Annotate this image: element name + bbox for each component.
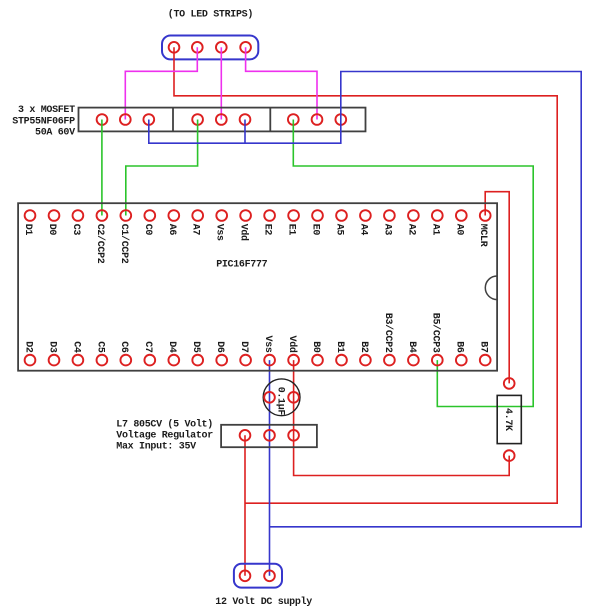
IC U1 bottom pin C6: [120, 355, 131, 366]
svg-text:Vss: Vss: [214, 224, 225, 241]
IC U1 top pin MCLR: [480, 210, 491, 221]
IC U1 bottom pin D2: [25, 355, 36, 366]
capacitor C1 pin 2: [288, 392, 299, 403]
IC U1 top pin A4: [360, 210, 371, 221]
IC U1 top pin C0: [144, 210, 155, 221]
svg-text:4.7K: 4.7K: [502, 408, 513, 431]
svg-text:D6: D6: [214, 341, 225, 353]
svg-text:D1: D1: [22, 224, 33, 236]
MOSFET Q3 pin 3: [335, 114, 346, 125]
svg-text:Vss: Vss: [262, 336, 273, 353]
IC U1 bottom pin D6: [216, 355, 227, 366]
IC U1 bottom pin B2: [360, 355, 371, 366]
svg-text:Vdd: Vdd: [286, 336, 298, 353]
IC U1 top pin Vss: [216, 210, 227, 221]
MOSFET Q3 pin 1: [288, 114, 299, 125]
svg-text:A5: A5: [334, 224, 345, 236]
svg-text:STP55NF06FP: STP55NF06FP: [12, 116, 75, 127]
svg-text:A6: A6: [166, 224, 177, 236]
IC U1 top pin C2/CCP2: [97, 210, 108, 221]
IC U1 bottom pin Vdd: [288, 355, 299, 366]
IC U1 top pin A5: [336, 210, 347, 221]
svg-text:C5: C5: [94, 341, 105, 353]
svg-text:B4: B4: [406, 341, 417, 353]
svg-text:(TO LED STRIPS): (TO LED STRIPS): [168, 9, 253, 21]
MOSFET Q2 pin 2: [216, 114, 227, 125]
IC U1 bottom pin D4: [168, 355, 179, 366]
svg-text:D2: D2: [22, 341, 33, 353]
regulator U2 pin 1: [240, 430, 251, 441]
voltage regulator U2 body: [221, 425, 317, 447]
IC U1 bottom pin C5: [97, 355, 108, 366]
resistor R1 top pin: [504, 378, 515, 389]
connector J2 pin 1: [240, 570, 251, 581]
wire magenta: J1 pin3 to MOSFET Q2 gate: [220, 47, 222, 119]
wire green: Q3 drain to PIC B5/CCP3: [293, 120, 533, 407]
svg-text:B2: B2: [358, 341, 369, 353]
connector J1 pin 3: [216, 42, 227, 53]
svg-text:MCLR: MCLR: [477, 224, 488, 247]
IC U1 top pin E1: [288, 210, 299, 221]
wire red +5V: PIC Vdd down through capacitor to regulator output, to resistor bottom: [294, 360, 510, 475]
connector J1 to LED strips: [162, 36, 258, 60]
MOSFET Q1 pin 2: [120, 114, 131, 125]
svg-text:B5/CCP3: B5/CCP3: [430, 313, 442, 353]
IC U1 top pin E0: [312, 210, 323, 221]
svg-text:C2/CCP2: C2/CCP2: [94, 224, 106, 264]
svg-text:Vdd: Vdd: [238, 224, 250, 241]
svg-text:A7: A7: [190, 224, 201, 236]
IC U1 bottom pin B4: [408, 355, 419, 366]
regulator U2 pin 2: [264, 430, 275, 441]
svg-text:C0: C0: [142, 224, 153, 236]
resistor R1 bottom pin: [504, 450, 515, 461]
svg-text:E0: E0: [310, 224, 321, 236]
MOSFET Q1 pin 3: [143, 114, 154, 125]
svg-text:C7: C7: [142, 341, 153, 353]
wire +12V red: J1 pin1 down, right, down right side, left to regulator input column: [174, 47, 557, 503]
IC U1 PIC16F777 body: [18, 203, 497, 371]
IC U1 bottom pin Vss: [264, 355, 275, 366]
wire blue ground: Q2 source stub: [244, 120, 246, 144]
svg-text:B3/CCP2: B3/CCP2: [382, 313, 394, 353]
IC U1 bottom pin D3: [49, 355, 60, 366]
svg-text:12 Volt DC supply: 12 Volt DC supply: [215, 596, 312, 608]
IC U1 top pin D0: [49, 210, 60, 221]
svg-text:B1: B1: [334, 341, 345, 353]
svg-text:C4: C4: [70, 341, 81, 353]
MOSFET Q2 pin 3: [240, 114, 251, 125]
svg-text:A1: A1: [429, 224, 440, 236]
svg-text:Voltage Regulator: Voltage Regulator: [116, 430, 213, 442]
IC U1 bottom pin C4: [73, 355, 84, 366]
svg-text:B7: B7: [478, 341, 489, 353]
IC U1 bottom pin B6: [456, 355, 467, 366]
IC U1 bottom pin D7: [240, 355, 251, 366]
svg-text:D4: D4: [166, 341, 177, 353]
MOSFET Q3 pin 2: [312, 114, 323, 125]
IC U1 bottom pin B5/CCP3: [432, 355, 443, 366]
MOSFET Q1 pin 1: [97, 114, 108, 125]
svg-text:C1/CCP2: C1/CCP2: [118, 224, 130, 264]
wire +12V red: supply pin1 up through junction to regulator pin1: [244, 435, 246, 576]
wire blue ground: PIC Vss down through capacitor and regulator to supply pin2: [269, 360, 271, 576]
IC U1 top pin D1: [25, 210, 36, 221]
IC U1 top pin A3: [384, 210, 395, 221]
wire red MCLR: PIC MCLR up, right, down to resistor top: [485, 192, 509, 384]
IC U1 top pin A1: [432, 210, 443, 221]
svg-text:E2: E2: [262, 224, 273, 236]
capacitor C1 pin 1: [264, 392, 275, 403]
IC U1 index notch: [485, 276, 497, 300]
wire blue ground: Q1 source along bottom, up over Q3, right edge down to supply: [149, 72, 581, 527]
connector J1 pin 2: [192, 42, 203, 53]
svg-text:D7: D7: [238, 341, 249, 353]
capacitor C1 0.1uF: [263, 379, 300, 416]
svg-text:A2: A2: [405, 224, 416, 236]
svg-text:D3: D3: [46, 341, 57, 353]
svg-text:0.1µF: 0.1µF: [274, 387, 285, 416]
svg-text:50A 60V: 50A 60V: [35, 128, 75, 139]
IC U1 top pin A0: [456, 210, 467, 221]
svg-text:L7 805CV (5 Volt): L7 805CV (5 Volt): [116, 419, 213, 431]
svg-text:B6: B6: [454, 341, 465, 353]
wire green: Q2 drain to PIC C1/CCP2: [126, 120, 198, 216]
IC U1 bottom pin B3/CCP2: [384, 355, 395, 366]
connector J1 pin 1: [169, 42, 180, 53]
connector J2 pin 2: [264, 570, 275, 581]
IC U1 top pin E2: [264, 210, 275, 221]
wire magenta: J1 pin2 to MOSFET Q1 gate: [125, 47, 197, 119]
svg-text:A4: A4: [357, 224, 368, 236]
svg-text:Max Input: 35V: Max Input: 35V: [116, 442, 196, 453]
svg-text:B0: B0: [310, 341, 321, 353]
svg-text:PIC16F777: PIC16F777: [216, 259, 267, 270]
IC U1 bottom pin B0: [312, 355, 323, 366]
connector J1 pin 4: [240, 42, 251, 53]
regulator U2 pin 3: [288, 430, 299, 441]
IC U1 top pin A6: [168, 210, 179, 221]
svg-text:A3: A3: [381, 224, 392, 236]
IC U1 bottom pin D5: [192, 355, 203, 366]
IC U1 top pin C1/CCP2: [120, 210, 131, 221]
IC U1 bottom pin C7: [144, 355, 155, 366]
MOSFET block Q1 Q2 Q3: [79, 108, 366, 132]
svg-text:3 x MOSFET: 3 x MOSFET: [18, 105, 75, 116]
resistor R1 body: [497, 395, 521, 443]
svg-text:E1: E1: [286, 224, 297, 236]
IC U1 bottom pin B1: [336, 355, 347, 366]
svg-text:C6: C6: [118, 341, 129, 353]
IC U1 top pin A7: [192, 210, 203, 221]
wire magenta: J1 pin4 to MOSFET Q3 gate: [246, 47, 317, 119]
svg-text:D0: D0: [46, 224, 57, 236]
IC U1 top pin Vdd: [240, 210, 251, 221]
MOSFET Q2 pin 1: [192, 114, 203, 125]
connector J2 12V DC supply: [234, 564, 282, 588]
svg-text:C3: C3: [70, 224, 81, 236]
IC U1 top pin C3: [73, 210, 84, 221]
IC U1 bottom pin B7: [480, 355, 491, 366]
label 3 x MOSFET STP55NF06FP 50A 60V: [12, 105, 75, 139]
wire green: Q1 drain to PIC C2/CCP2: [101, 120, 103, 216]
svg-text:A0: A0: [453, 224, 464, 236]
svg-text:D5: D5: [190, 341, 201, 353]
IC U1 top pin A2: [408, 210, 419, 221]
